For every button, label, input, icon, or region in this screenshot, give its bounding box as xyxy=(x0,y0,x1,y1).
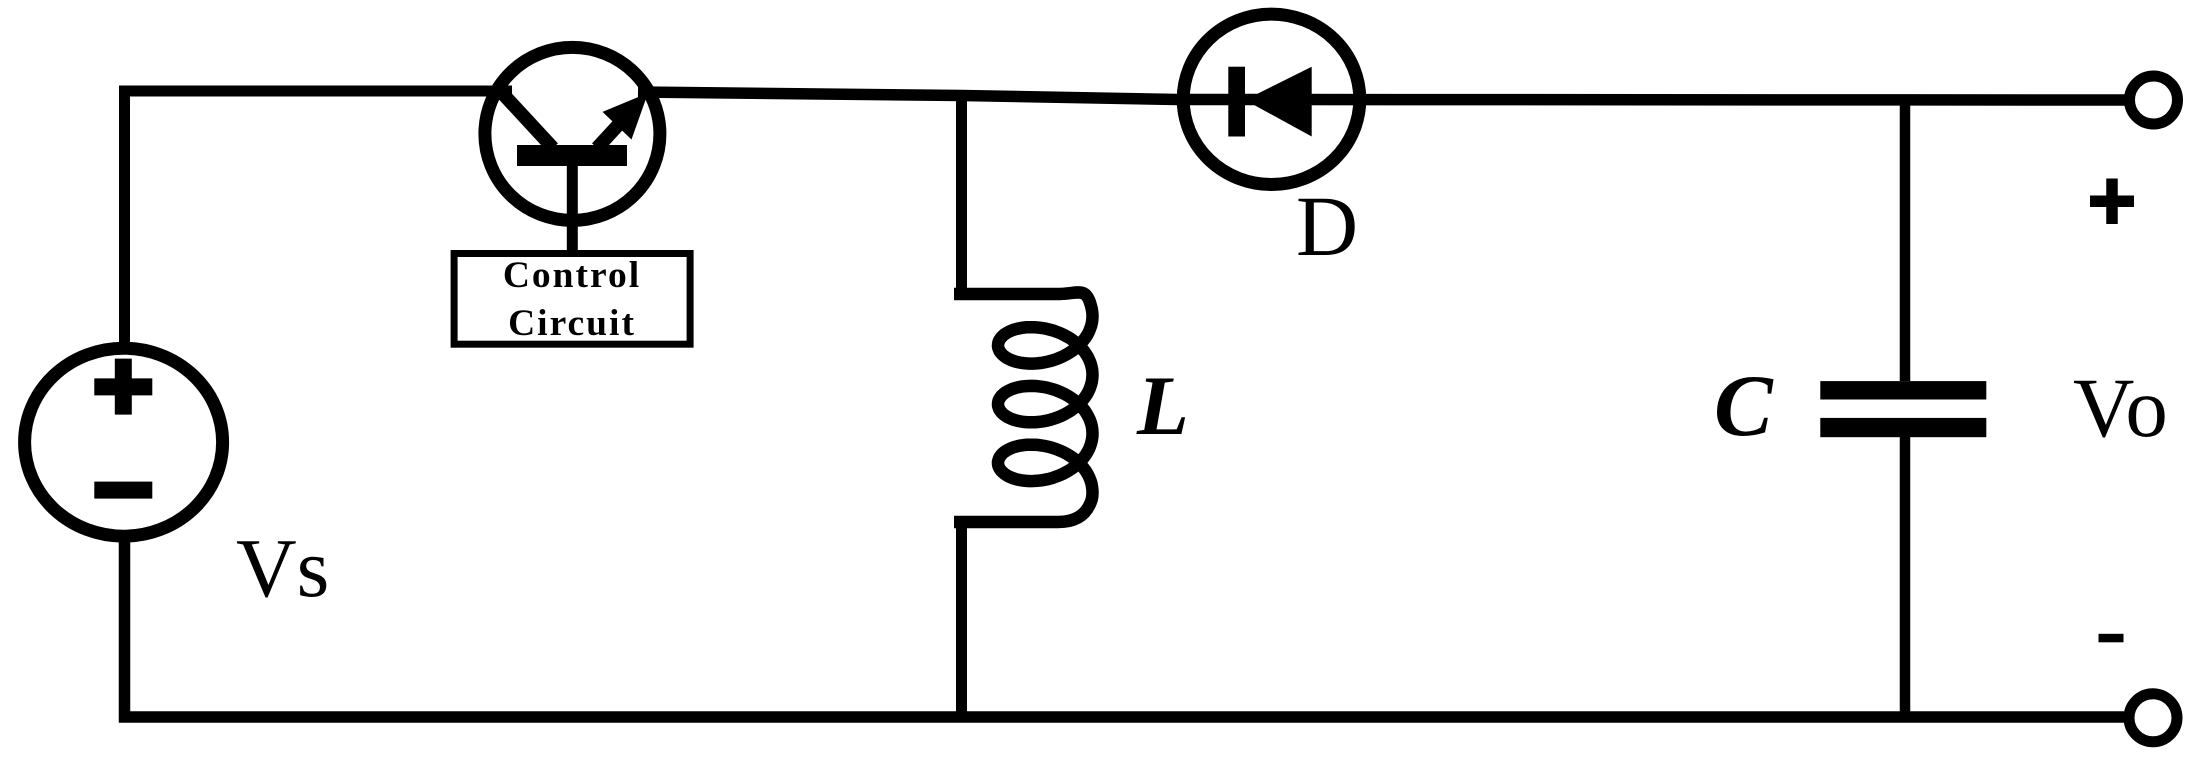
wire: transistor to diode to top-right terminal xyxy=(638,92,2128,100)
diode triangle xyxy=(1245,67,1312,137)
node junction: vertical wire to inductor xyxy=(956,95,967,294)
svg-text:Vo: Vo xyxy=(2073,361,2170,455)
svg-text:C: C xyxy=(1714,358,1774,455)
transistor emitter line xyxy=(597,110,632,148)
output terminal top xyxy=(2130,76,2178,124)
transistor base lead xyxy=(567,166,578,254)
wire: source bottom lead + bottom rail xyxy=(125,541,2125,717)
voltage source plus sign xyxy=(94,359,152,415)
transistor collector diagonal xyxy=(498,89,553,149)
output plus sign xyxy=(2090,179,2134,225)
transistor Q circle xyxy=(485,47,660,220)
svg-text:Control: Control xyxy=(503,255,641,296)
control circuit box xyxy=(454,254,690,345)
svg-text:Circuit: Circuit xyxy=(508,303,636,344)
capacitor top lead xyxy=(1900,96,1911,381)
diode cathode bar xyxy=(1228,67,1245,137)
svg-text:D: D xyxy=(1296,178,1358,274)
capacitor bottom lead xyxy=(1900,437,1911,717)
transistor emitter arrowhead xyxy=(603,93,649,140)
wire: inductor bottom lead xyxy=(956,522,967,717)
capacitor top plate xyxy=(1820,381,1986,399)
transistor base bar xyxy=(517,145,627,166)
wire: left vertical + top-left segment xyxy=(125,91,513,343)
inductor L coil xyxy=(954,292,1093,522)
svg-text:Vs: Vs xyxy=(236,522,329,615)
output terminal bottom xyxy=(2129,694,2177,742)
voltage source minus sign xyxy=(94,482,152,499)
diode D circle xyxy=(1183,14,1360,184)
capacitor bottom plate xyxy=(1820,418,1986,437)
svg-text:L: L xyxy=(1136,359,1189,453)
output minus sign xyxy=(2099,634,2124,643)
voltage source Vs circle xyxy=(25,348,223,536)
